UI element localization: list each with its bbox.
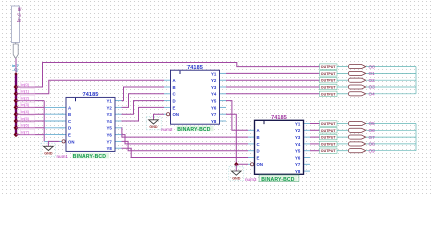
svg-text:OUTPUT: OUTPUT — [321, 142, 337, 146]
svg-text:Y5: Y5 — [107, 126, 113, 131]
svg-text:GND: GND — [44, 152, 53, 156]
svg-text:Y1: Y1 — [295, 121, 301, 126]
svg-text:D: D — [173, 99, 176, 104]
svg-text:Y2: Y2 — [295, 128, 301, 133]
svg-text:C: C — [68, 119, 71, 124]
svg-text:O6: O6 — [369, 128, 376, 133]
svg-text:BINARY-BCD: BINARY-BCD — [261, 177, 294, 183]
svg-text:O3: O3 — [369, 85, 376, 90]
svg-text:Y6: Y6 — [295, 155, 301, 160]
svg-text:Y3: Y3 — [295, 135, 301, 140]
svg-text:OUTPUT: OUTPUT — [321, 122, 337, 126]
svg-text:in[7: in[7 — [12, 64, 19, 68]
svg-text:in[6]: in[6] — [21, 123, 28, 128]
svg-text:BINARY-BCD: BINARY-BCD — [73, 154, 106, 160]
svg-text:[7..0]: [7..0] — [17, 14, 21, 22]
svg-text:O2: O2 — [369, 78, 376, 83]
svg-text:num1: num1 — [57, 154, 69, 159]
svg-text:E: E — [173, 105, 176, 110]
svg-text:Y5: Y5 — [211, 99, 217, 104]
svg-text:in[2]: in[2] — [21, 95, 28, 100]
svg-text:Y3: Y3 — [211, 85, 217, 90]
svg-text:74185: 74185 — [271, 115, 287, 121]
svg-text:OUTPUT: OUTPUT — [321, 129, 337, 133]
svg-text:Y1: Y1 — [211, 71, 217, 76]
svg-text:D: D — [68, 126, 71, 131]
svg-text:OUTPUT: OUTPUT — [321, 86, 337, 90]
svg-text:B: B — [68, 112, 71, 117]
svg-text:74185: 74185 — [83, 92, 99, 98]
svg-text:O0: O0 — [369, 64, 376, 69]
svg-text:O5: O5 — [369, 121, 376, 126]
svg-text:in[7]: in[7] — [21, 129, 28, 134]
svg-text:OUTPUT: OUTPUT — [321, 92, 337, 96]
svg-text:num3: num3 — [245, 177, 257, 182]
svg-text:Y8: Y8 — [295, 169, 301, 174]
svg-text:O9: O9 — [369, 148, 376, 153]
svg-text:Y5: Y5 — [295, 149, 301, 154]
svg-text:B: B — [173, 85, 176, 90]
svg-text:E: E — [68, 133, 71, 138]
svg-text:OUTPUT: OUTPUT — [321, 136, 337, 140]
svg-text:Y8: Y8 — [107, 146, 113, 151]
svg-text:ON: ON — [257, 162, 263, 167]
svg-text:in: in — [17, 8, 22, 12]
svg-text:Y3: Y3 — [107, 112, 113, 117]
svg-text:Y8: Y8 — [211, 119, 217, 124]
svg-text:Y2: Y2 — [211, 78, 217, 83]
svg-text:Y7: Y7 — [107, 139, 113, 144]
svg-text:GND: GND — [149, 125, 158, 129]
svg-text:A: A — [257, 128, 260, 133]
svg-text:Y1: Y1 — [107, 99, 113, 104]
svg-text:E: E — [257, 155, 260, 160]
svg-text:A: A — [68, 105, 71, 110]
svg-text:Y4: Y4 — [107, 119, 113, 124]
svg-text:O7: O7 — [369, 135, 376, 140]
svg-text:C: C — [173, 92, 176, 97]
svg-text:O1: O1 — [369, 71, 376, 76]
svg-text:Y4: Y4 — [295, 142, 301, 147]
svg-text:74185: 74185 — [187, 65, 203, 71]
svg-text:in[4]: in[4] — [21, 109, 28, 114]
svg-text:ON: ON — [173, 112, 179, 117]
svg-text:C: C — [257, 142, 260, 147]
svg-text:in[3]: in[3] — [21, 102, 28, 107]
svg-text:BINARY-BCD: BINARY-BCD — [177, 127, 210, 133]
svg-text:OUTPUT: OUTPUT — [321, 79, 337, 83]
svg-text:GND: GND — [232, 176, 241, 180]
svg-text:A: A — [173, 78, 176, 83]
svg-text:Y7: Y7 — [211, 112, 217, 117]
svg-text:OUTPUT: OUTPUT — [321, 149, 337, 153]
svg-text:B: B — [257, 135, 260, 140]
svg-text:Y6: Y6 — [107, 133, 113, 138]
svg-text:D: D — [257, 149, 260, 154]
svg-text:O8: O8 — [369, 142, 376, 147]
svg-text:Y6: Y6 — [211, 105, 217, 110]
svg-text:in[0]: in[0] — [21, 82, 28, 87]
svg-text:Y4: Y4 — [211, 92, 217, 97]
svg-text:OUTPUT: OUTPUT — [321, 72, 337, 76]
svg-text:ON: ON — [68, 139, 74, 144]
svg-text:num2: num2 — [161, 127, 173, 132]
svg-text:Y2: Y2 — [107, 105, 113, 110]
svg-text:Y7: Y7 — [295, 162, 301, 167]
svg-text:in[1]: in[1] — [21, 89, 28, 94]
svg-text:OUTPUT: OUTPUT — [321, 65, 337, 69]
svg-text:O4: O4 — [369, 92, 376, 97]
svg-text:..0]: ..0] — [12, 68, 18, 72]
svg-text:in[5]: in[5] — [21, 116, 28, 121]
